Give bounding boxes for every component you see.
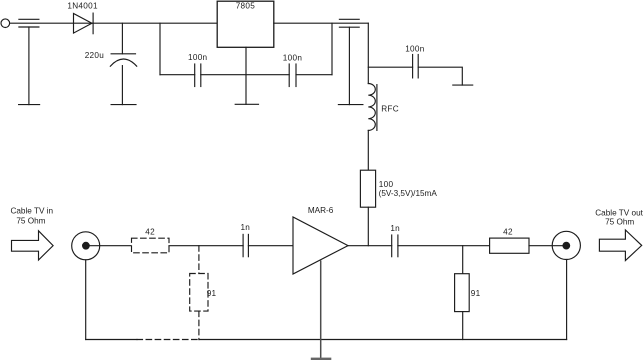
- wire J1 to 7805 input: [10, 22, 218, 24]
- wire bypass rail segment 3: [296, 74, 332, 76]
- svg-text:42: 42: [145, 227, 155, 236]
- wire R2 to C7: [169, 245, 243, 247]
- wire U2 output to C8: [348, 245, 392, 247]
- capacitor C4 100n: [289, 64, 296, 87]
- voltage regulator U1 7805: [217, 1, 274, 47]
- wire C7 to U2 input: [248, 245, 293, 247]
- wire C1 stem to ground: [28, 27, 30, 105]
- wire ground rail dashed section: [137, 339, 199, 341]
- svg-text:RFC: RFC: [381, 105, 399, 114]
- svg-text:42: 42: [503, 228, 513, 237]
- svg-text:1n: 1n: [240, 223, 250, 232]
- wire R1 to output node: [367, 207, 369, 246]
- arrow signal output: [599, 230, 641, 261]
- amplifier U2 MAR-6: [293, 217, 348, 274]
- feedthrough capacitor C5 top plate: [339, 18, 359, 20]
- svg-text:Cable TV in: Cable TV in: [10, 207, 53, 216]
- ground bar U2: [311, 358, 332, 360]
- resistor R2 42 optional: [132, 238, 170, 253]
- wire C5 stem to ground: [348, 27, 350, 104]
- wire branch to decoupling C6: [368, 66, 412, 68]
- wire ground rail right: [199, 339, 567, 341]
- svg-text:1N4001: 1N4001: [67, 2, 98, 11]
- ground bar right of C6: [453, 84, 473, 86]
- capacitor C8 1n: [392, 235, 398, 257]
- capacitor C2 220u flat plate: [111, 53, 135, 55]
- wire J2 to R2: [86, 245, 132, 247]
- arrow signal input: [12, 231, 54, 260]
- svg-text:75 Ohm: 75 Ohm: [16, 216, 45, 225]
- wire R3 to J3: [529, 245, 566, 247]
- wire 7805 ground pin: [245, 47, 247, 104]
- connector J3 coax output: [552, 231, 580, 259]
- svg-text:91: 91: [207, 289, 217, 298]
- resistor R3 42: [490, 238, 529, 253]
- ground bar under C5: [338, 104, 363, 106]
- svg-text:1n: 1n: [390, 224, 400, 233]
- wire C8 to R3: [398, 245, 490, 247]
- wire U2 ground stem: [320, 261, 322, 358]
- wire J2 stem to ground rail: [85, 260, 87, 340]
- wire vertical right bypass branch: [331, 23, 333, 74]
- diode D1 1N4001: [74, 13, 94, 34]
- svg-text:100n: 100n: [283, 54, 303, 63]
- ground bar under 7805: [235, 103, 258, 105]
- wire 7805 output to corner: [274, 22, 369, 24]
- wire bypass rail segment 2: [201, 74, 289, 76]
- wire C2 stem to ground: [121, 66, 123, 105]
- resistor R1 100: [360, 170, 375, 207]
- capacitor C3 100n: [195, 64, 201, 87]
- wire vertical left bypass branch: [159, 23, 161, 74]
- wire C6 to ground corner: [418, 67, 462, 85]
- wire RFC to R1: [367, 130, 369, 170]
- wire node to R5: [462, 246, 464, 274]
- svg-text:7805: 7805: [236, 2, 256, 11]
- svg-text:100n: 100n: [405, 44, 425, 53]
- svg-text:MAR-6: MAR-6: [308, 206, 334, 215]
- wire J3 stem to ground rail: [566, 260, 568, 340]
- feedthrough capacitor C5 bottom plate: [339, 26, 359, 28]
- wire supply corner down to RFC: [367, 23, 369, 83]
- wire dashed node to R4: [198, 246, 200, 274]
- svg-text:100n: 100n: [188, 53, 208, 62]
- svg-text:220u: 220u: [85, 51, 105, 60]
- svg-text:Cable TV out: Cable TV out: [595, 209, 643, 218]
- wire bypass rail segment 1: [160, 74, 195, 76]
- feedthrough capacitor C1 top plate: [19, 18, 39, 20]
- wire ground rail left: [86, 339, 137, 341]
- wire R5 to ground rail: [462, 312, 464, 340]
- capacitor C6 100n: [413, 55, 419, 78]
- svg-text:(5V-3,5V)/15mA: (5V-3,5V)/15mA: [379, 189, 438, 198]
- capacitor C7 1n: [243, 234, 248, 256]
- svg-text:100: 100: [379, 180, 394, 189]
- inductor L1 RFC: [368, 84, 377, 131]
- ground bar under C2: [111, 104, 136, 106]
- wire dashed R4 to ground rail: [198, 311, 200, 339]
- capacitor C2 220u stem top: [121, 23, 123, 54]
- svg-text:75 Ohm: 75 Ohm: [605, 218, 634, 227]
- ground bar under C1: [19, 104, 40, 106]
- feedthrough capacitor C1 bottom plate: [19, 26, 39, 28]
- svg-text:91: 91: [471, 289, 481, 298]
- capacitor C2 220u curved plate: [110, 59, 136, 66]
- connector J1 power input terminal: [1, 19, 10, 28]
- connector J2 coax input: [72, 232, 100, 260]
- resistor R4 91 optional: [190, 274, 208, 312]
- resistor R5 91: [455, 274, 470, 312]
